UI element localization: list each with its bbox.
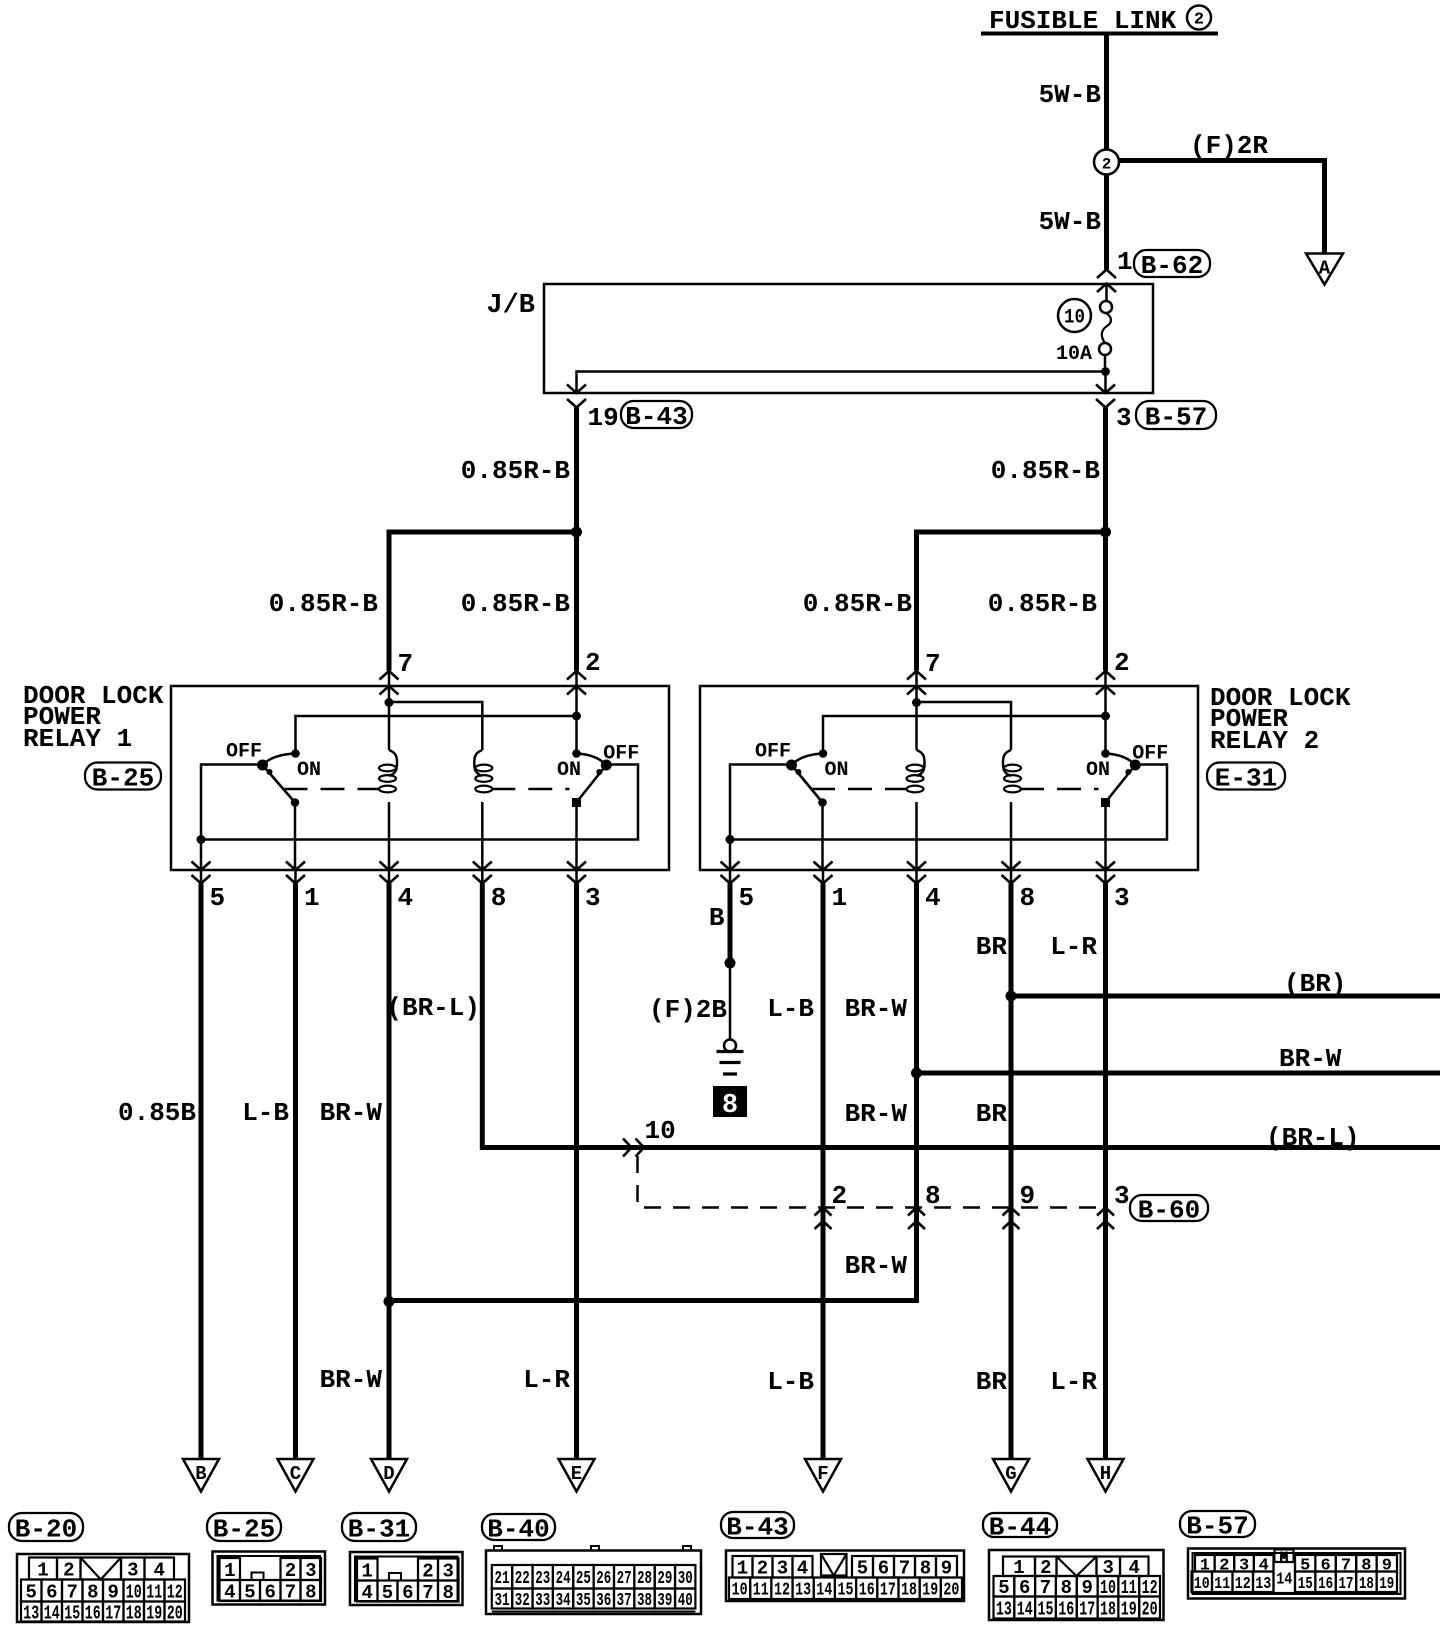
svg-text:9: 9 [941, 1558, 952, 1580]
triangle H [1088, 1459, 1124, 1492]
svg-text:18: 18 [901, 1581, 917, 1601]
svg-text:12: 12 [1235, 1575, 1251, 1594]
svg-text:B-25: B-25 [213, 1514, 275, 1544]
connector pinout B-40 [486, 1551, 701, 1615]
svg-text:10: 10 [732, 1581, 748, 1601]
svg-text:10: 10 [645, 1116, 676, 1146]
pin 1 exit marker [814, 862, 833, 871]
pin 7 internal wire [915, 671, 918, 750]
svg-text:12: 12 [774, 1581, 790, 1601]
svg-text:17: 17 [880, 1581, 896, 1601]
svg-text:3: 3 [1114, 883, 1130, 913]
connector B-60 dashed boundary [638, 1156, 1104, 1208]
svg-text:2: 2 [1114, 648, 1130, 678]
svg-text:(F)2B: (F)2B [649, 995, 727, 1025]
triangle D [371, 1459, 407, 1492]
mechanical link dashes [811, 788, 908, 791]
svg-text:34: 34 [556, 1591, 571, 1611]
svg-text:L-B: L-B [767, 1367, 814, 1397]
svg-text:28: 28 [637, 1569, 652, 1589]
svg-text:8: 8 [491, 883, 507, 913]
svg-text:2: 2 [285, 1560, 296, 1582]
svg-text:L-B: L-B [767, 994, 814, 1024]
wire 5W-B upper [1104, 36, 1109, 150]
B-60 pin 8 marker [908, 1208, 925, 1216]
junction dot [571, 527, 582, 538]
svg-text:5: 5 [25, 1581, 36, 1603]
connector ref B-43 [721, 1512, 794, 1538]
relay coil (right) [474, 750, 482, 776]
wire BR-W (relay1 pin4) [387, 884, 392, 1460]
fuse 10A [1100, 301, 1112, 313]
pin 2 internal wire [1104, 671, 1107, 753]
door lock power relay 2 box [700, 686, 1198, 870]
svg-text:8: 8 [925, 1181, 941, 1211]
svg-text:BR: BR [976, 1367, 1008, 1397]
svg-text:3: 3 [442, 1560, 453, 1582]
svg-text:OFF: OFF [1132, 743, 1168, 766]
svg-text:7: 7 [66, 1581, 77, 1603]
wire (F)2R [1119, 161, 1325, 254]
svg-text:15: 15 [838, 1581, 854, 1601]
svg-text:5W-B: 5W-B [1039, 80, 1102, 110]
svg-text:B-25: B-25 [92, 763, 154, 793]
svg-text:1: 1 [304, 883, 320, 913]
svg-text:16: 16 [1318, 1575, 1333, 1594]
triangle A [1306, 254, 1343, 285]
svg-text:36: 36 [596, 1591, 611, 1611]
svg-text:ON: ON [297, 759, 321, 782]
svg-text:L-B: L-B [242, 1098, 289, 1128]
svg-text:13: 13 [1255, 1575, 1271, 1594]
B-60 pin 9 marker [1003, 1208, 1020, 1216]
svg-text:B-31: B-31 [348, 1514, 410, 1544]
svg-text:OFF: OFF [755, 741, 791, 764]
door lock power relay 1 box [171, 686, 669, 870]
wire BR-W to right edge [917, 1071, 1440, 1076]
svg-text:39: 39 [657, 1591, 672, 1611]
svg-text:8: 8 [442, 1582, 453, 1604]
svg-text:11: 11 [146, 1581, 162, 1603]
connector ref B-25 [207, 1513, 281, 1541]
wire 0.85R-B right branch to pin 7 [917, 532, 1106, 671]
svg-text:F: F [817, 1463, 828, 1485]
pin 1 exit marker [286, 862, 305, 871]
left switch OFF/ON [263, 754, 296, 766]
connector marker 10 (B-60) [623, 1139, 632, 1157]
svg-text:B-43: B-43 [625, 402, 687, 432]
svg-text:35: 35 [576, 1591, 591, 1611]
fuse number circle 10 [1058, 299, 1091, 332]
svg-text:BR-W: BR-W [320, 1365, 383, 1395]
wire 0.85R-B left trunk [574, 408, 579, 671]
svg-text:6: 6 [264, 1581, 275, 1603]
coil feed branch [389, 702, 482, 750]
svg-text:8: 8 [305, 1581, 316, 1603]
svg-text:B-62: B-62 [1141, 251, 1203, 281]
svg-text:8: 8 [920, 1558, 931, 1580]
svg-text:3: 3 [585, 883, 601, 913]
svg-text:B: B [709, 903, 725, 933]
svg-text:B-57: B-57 [1145, 402, 1207, 432]
svg-text:5: 5 [739, 883, 755, 913]
relay coil (right) [1003, 750, 1011, 776]
ground ref box 8 [713, 1086, 747, 1117]
svg-text:7: 7 [398, 649, 414, 679]
svg-text:G: G [1005, 1463, 1016, 1485]
B-60 pin 3 marker [1097, 1208, 1114, 1216]
svg-text:16: 16 [1058, 1598, 1074, 1620]
svg-text:18: 18 [1359, 1575, 1374, 1594]
pin 7 entry marker [907, 671, 926, 680]
triangle C [278, 1459, 314, 1492]
svg-text:J/B: J/B [486, 291, 535, 321]
svg-text:2: 2 [757, 1558, 768, 1580]
svg-text:BR-W: BR-W [1279, 1044, 1342, 1074]
svg-text:5: 5 [210, 883, 226, 913]
svg-text:33: 33 [535, 1591, 550, 1611]
connector ref B-44 [983, 1513, 1057, 1537]
svg-text:H: H [1100, 1463, 1111, 1485]
pin 2 entry marker [1096, 671, 1115, 680]
svg-text:BR-W: BR-W [845, 994, 908, 1024]
wire inside J/B lower [577, 355, 1106, 393]
svg-text:0.85R-B: 0.85R-B [803, 589, 913, 619]
svg-text:9: 9 [107, 1581, 118, 1603]
connector pinout B-31 [350, 1552, 463, 1605]
pin 5 exit marker [192, 862, 211, 871]
svg-text:8: 8 [87, 1581, 98, 1603]
svg-text:20: 20 [1142, 1598, 1158, 1620]
svg-text:6: 6 [402, 1582, 413, 1604]
svg-text:6: 6 [878, 1558, 889, 1580]
wire L-R (relay1 pin3) [574, 884, 579, 1460]
svg-text:31: 31 [495, 1591, 510, 1611]
svg-text:4: 4 [398, 883, 414, 913]
svg-text:7: 7 [422, 1582, 433, 1604]
connector ref B-20 [9, 1513, 83, 1541]
svg-text:3: 3 [1114, 1181, 1130, 1211]
svg-text:16: 16 [859, 1581, 875, 1601]
svg-text:0.85R-B: 0.85R-B [461, 589, 571, 619]
wire 0.85B (relay1 pin5) [199, 884, 204, 1460]
relay coil (left) [917, 750, 925, 776]
pin 3 exit marker [1096, 862, 1115, 871]
svg-text:2: 2 [1102, 156, 1112, 174]
wire BR (relay2 pin8) [1009, 884, 1014, 1460]
B-57 key M [1275, 1550, 1294, 1563]
pin 1 internal wire [821, 805, 824, 870]
svg-text:10: 10 [126, 1581, 142, 1603]
wire inside J/B to fuse [1105, 284, 1108, 302]
ON contact feed wire [296, 716, 577, 753]
left switch OFF/ON [792, 754, 824, 766]
circled 2 of fusible link [1187, 6, 1211, 30]
svg-text:3: 3 [127, 1559, 138, 1581]
svg-text:12: 12 [167, 1581, 183, 1603]
pin 7 entry marker [380, 671, 399, 680]
common rail to pin 5 [730, 765, 1167, 840]
svg-text:2: 2 [585, 648, 601, 678]
svg-text:1: 1 [832, 883, 848, 913]
svg-text:10: 10 [1064, 307, 1085, 330]
connector pinout B-57 [1188, 1549, 1405, 1599]
svg-text:B-44: B-44 [989, 1512, 1051, 1542]
pin 4 exit marker [907, 862, 926, 871]
svg-text:0.85R-B: 0.85R-B [991, 456, 1101, 486]
svg-text:0.85B: 0.85B [118, 1098, 196, 1128]
triangle E [559, 1459, 595, 1492]
svg-text:15: 15 [1038, 1598, 1054, 1620]
svg-text:16: 16 [85, 1602, 101, 1624]
svg-text:11: 11 [1214, 1575, 1230, 1594]
svg-text:B-60: B-60 [1138, 1195, 1200, 1225]
svg-text:3: 3 [777, 1558, 788, 1580]
svg-text:ON: ON [825, 759, 849, 782]
svg-text:BR-W: BR-W [845, 1251, 908, 1281]
svg-text:A: A [1319, 258, 1331, 280]
junction dot [1100, 527, 1111, 538]
svg-text:32: 32 [515, 1591, 530, 1611]
svg-text:2: 2 [63, 1559, 74, 1581]
svg-text:OFF: OFF [603, 743, 639, 766]
svg-text:4: 4 [153, 1559, 164, 1581]
svg-text:5W-B: 5W-B [1039, 207, 1102, 237]
wire L-R (relay2 pin3) [1103, 884, 1108, 1460]
connector pinout B-44 [989, 1550, 1164, 1620]
svg-text:5: 5 [382, 1582, 393, 1604]
svg-text:BR: BR [976, 1099, 1008, 1129]
junction dot pin4 tie [384, 1296, 395, 1307]
svg-text:5: 5 [244, 1581, 255, 1603]
triangle B [183, 1459, 219, 1492]
svg-text:30: 30 [678, 1569, 693, 1589]
svg-text:14: 14 [816, 1581, 832, 1601]
pin 3 exit marker [567, 862, 586, 871]
svg-text:(BR-L): (BR-L) [1266, 1123, 1360, 1153]
svg-text:14: 14 [1017, 1598, 1033, 1620]
svg-text:2: 2 [832, 1181, 848, 1211]
svg-text:B-43: B-43 [726, 1512, 788, 1542]
svg-text:6: 6 [46, 1581, 57, 1603]
svg-text:(BR-L): (BR-L) [386, 993, 480, 1023]
svg-text:7: 7 [925, 649, 941, 679]
splice node 2 [1094, 150, 1119, 175]
pin 2 internal wire [575, 671, 578, 753]
svg-text:17: 17 [1079, 1598, 1095, 1620]
svg-text:1: 1 [224, 1560, 235, 1582]
svg-text:19: 19 [1121, 1598, 1137, 1620]
pin 5 exit marker [721, 862, 740, 871]
pin 2 entry marker [567, 671, 586, 680]
svg-text:14: 14 [1276, 1571, 1292, 1590]
svg-text:25: 25 [576, 1569, 591, 1589]
connector marker 1 B-62 [1097, 270, 1116, 279]
svg-text:19: 19 [922, 1581, 938, 1601]
svg-text:B-40: B-40 [487, 1514, 549, 1544]
pin 7 internal wire [388, 671, 391, 750]
svg-text:L-R: L-R [523, 1365, 570, 1395]
relay coil (left) [389, 750, 397, 776]
svg-text:40: 40 [678, 1591, 693, 1611]
connector ref B-57 [1180, 1511, 1255, 1537]
svg-text:19: 19 [1379, 1575, 1394, 1594]
junction block J/B [544, 284, 1153, 393]
svg-text:26: 26 [596, 1569, 611, 1589]
svg-text:20: 20 [943, 1581, 959, 1601]
svg-text:11: 11 [753, 1581, 769, 1601]
B-60 pin 2 marker [815, 1208, 832, 1216]
svg-text:22: 22 [515, 1569, 530, 1589]
right switch ON/OFF [1106, 754, 1136, 766]
triangle F [805, 1459, 841, 1492]
svg-text:(F)2R: (F)2R [1190, 131, 1268, 161]
connector pinout B-25 [213, 1552, 326, 1605]
svg-text:0.85R-B: 0.85R-B [269, 589, 379, 619]
svg-text:15: 15 [64, 1602, 80, 1624]
svg-text:1: 1 [1117, 247, 1133, 277]
ON contact feed wire [823, 716, 1106, 753]
svg-text:29: 29 [657, 1569, 672, 1589]
connector pinout B-20 [17, 1554, 189, 1622]
ground wire B (relay2 pin5) [728, 884, 733, 964]
svg-text:ON: ON [557, 759, 581, 782]
svg-text:C: C [290, 1463, 301, 1485]
wire 0.85R-B right trunk [1103, 408, 1108, 671]
mechanical link dashes [284, 788, 381, 791]
svg-text:8: 8 [1020, 883, 1036, 913]
svg-text:7: 7 [899, 1558, 910, 1580]
pin 3 internal wire [1104, 806, 1107, 870]
svg-text:7: 7 [285, 1581, 296, 1603]
svg-text:9: 9 [1020, 1181, 1036, 1211]
svg-text:OFF: OFF [226, 741, 262, 764]
svg-text:13: 13 [795, 1581, 811, 1601]
connector pinout B-43 [726, 1551, 964, 1602]
svg-text:37: 37 [617, 1591, 632, 1611]
svg-text:20: 20 [167, 1602, 183, 1624]
svg-text:B-20: B-20 [15, 1514, 77, 1544]
svg-text:2: 2 [1194, 11, 1204, 30]
svg-text:13: 13 [23, 1602, 39, 1624]
svg-text:23: 23 [535, 1569, 550, 1589]
svg-text:14: 14 [44, 1602, 60, 1624]
pin 8 exit marker [473, 862, 492, 871]
svg-text:19: 19 [146, 1602, 162, 1624]
svg-text:15: 15 [1298, 1575, 1313, 1594]
svg-text:17: 17 [105, 1602, 121, 1624]
svg-text:18: 18 [1100, 1598, 1116, 1620]
wire 5W-B lower [1104, 175, 1109, 270]
wire (BR) to right edge [1011, 994, 1440, 999]
svg-text:4: 4 [361, 1582, 372, 1604]
svg-text:38: 38 [637, 1591, 652, 1611]
svg-text:17: 17 [1339, 1575, 1354, 1594]
common rail to pin 5 [201, 765, 638, 840]
svg-text:3: 3 [1116, 403, 1132, 433]
ground symbol [724, 1040, 736, 1052]
relay 1 connector ref B-25 [85, 763, 161, 790]
relay 2 connector ref E-31 [1207, 763, 1285, 790]
connector ref B-31 [342, 1513, 416, 1541]
svg-text:B: B [195, 1463, 206, 1485]
triangle G [993, 1459, 1029, 1492]
svg-text:3: 3 [305, 1560, 316, 1582]
svg-text:M: M [1280, 1550, 1288, 1566]
svg-text:L-R: L-R [1050, 932, 1097, 962]
svg-text:24: 24 [556, 1569, 571, 1589]
coil feed branch [917, 702, 1012, 750]
svg-text:4: 4 [925, 883, 941, 913]
svg-text:18: 18 [126, 1602, 142, 1624]
svg-text:B-57: B-57 [1186, 1511, 1248, 1541]
wire L-B (relay1 pin1) [293, 884, 298, 1460]
svg-text:E: E [571, 1463, 582, 1485]
svg-text:21: 21 [495, 1569, 510, 1589]
right switch ON/OFF [577, 754, 607, 766]
svg-text:E-31: E-31 [1215, 763, 1277, 793]
connector marker 19 B-43 (J/B left exit) [567, 385, 586, 394]
wire 0.85R-B left branch to pin 7 [389, 532, 577, 671]
svg-text:0.85R-B: 0.85R-B [461, 456, 571, 486]
svg-text:10A: 10A [1056, 343, 1092, 366]
wire BR-W (relay2 pin4) [389, 884, 917, 1301]
svg-text:4: 4 [797, 1558, 808, 1580]
svg-text:RELAY 2: RELAY 2 [1210, 726, 1319, 756]
svg-text:L-R: L-R [1050, 1367, 1097, 1397]
junction dot in J/B [1101, 367, 1110, 376]
svg-text:0.85R-B: 0.85R-B [988, 589, 1098, 619]
svg-text:RELAY 1: RELAY 1 [23, 724, 132, 754]
svg-text:2: 2 [422, 1560, 433, 1582]
svg-text:(BR): (BR) [1284, 969, 1346, 999]
svg-text:10: 10 [1194, 1575, 1210, 1594]
svg-text:4: 4 [224, 1581, 235, 1603]
svg-text:1: 1 [737, 1558, 748, 1580]
pin 1 internal wire [294, 805, 297, 870]
svg-text:27: 27 [617, 1569, 632, 1589]
connector ref B-40 [482, 1514, 555, 1540]
svg-text:BR-W: BR-W [320, 1098, 383, 1128]
svg-text:D: D [383, 1463, 394, 1485]
svg-text:1: 1 [361, 1560, 372, 1582]
pin 3 internal wire [575, 806, 578, 870]
wire (BR-L) from relay1 pin8 [482, 884, 1440, 1148]
pin 4 exit marker [380, 862, 399, 871]
svg-text:13: 13 [996, 1598, 1012, 1620]
svg-text:BR-W: BR-W [845, 1099, 908, 1129]
svg-text:BR: BR [976, 932, 1008, 962]
svg-text:8: 8 [722, 1091, 738, 1121]
connector ref B-60 [1130, 1195, 1208, 1221]
svg-text:19: 19 [588, 403, 619, 433]
fusible link underline [981, 32, 1218, 36]
svg-text:5: 5 [857, 1558, 868, 1580]
svg-text:1: 1 [37, 1559, 48, 1581]
pin 8 exit marker [1002, 862, 1021, 871]
connector marker 3 B-57 (J/B right exit) [1096, 385, 1115, 394]
svg-text:ON: ON [1086, 759, 1110, 782]
wire L-B (relay2 pin1) [821, 884, 826, 1460]
